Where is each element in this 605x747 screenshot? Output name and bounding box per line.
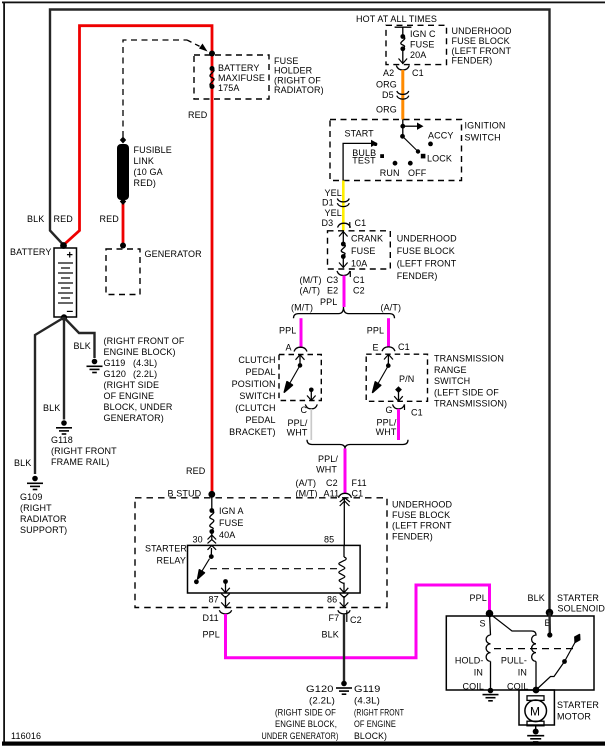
svg-text:ENGINE BLOCK,: ENGINE BLOCK, — [275, 719, 337, 729]
svg-text:MOTOR: MOTOR — [557, 711, 591, 721]
svg-text:(RIGHT SIDE OF: (RIGHT SIDE OF — [275, 707, 336, 717]
svg-text:(LEFT SIDE OF: (LEFT SIDE OF — [434, 387, 499, 397]
svg-text:HOLDER: HOLDER — [274, 66, 313, 76]
svg-text:E: E — [373, 342, 379, 352]
svg-text:M: M — [530, 705, 540, 719]
svg-text:GENERATOR): GENERATOR) — [104, 413, 164, 423]
svg-text:FENDER): FENDER) — [392, 531, 433, 541]
svg-text:(10 GA: (10 GA — [134, 167, 163, 177]
svg-text:YEL: YEL — [325, 208, 342, 218]
svg-text:RED): RED) — [134, 178, 156, 188]
svg-text:87: 87 — [209, 594, 219, 604]
svg-text:PPL/: PPL/ — [318, 454, 338, 464]
svg-text:C2: C2 — [353, 286, 365, 296]
label PPL/WHT — [316, 454, 338, 475]
svg-text:A: A — [286, 343, 292, 353]
svg-text:UNDERHOOD: UNDERHOOD — [452, 26, 512, 36]
svg-text:(4.3L): (4.3L) — [354, 696, 380, 706]
fuse holder / battery maxifuse box — [194, 51, 269, 100]
svg-text:PULL-: PULL- — [501, 656, 527, 666]
connector cup below crank fuse — [337, 271, 350, 277]
wire PPL/WHT clutch switch to merge (M/T) — [310, 409, 312, 440]
svg-text:(RIGHT: (RIGHT — [20, 503, 52, 513]
svg-text:C: C — [301, 405, 308, 415]
svg-text:BLK: BLK — [27, 214, 44, 224]
node B junction — [546, 609, 554, 617]
label IGN C FUSE 20A — [410, 29, 436, 60]
label PPL/WHT (M/T) — [287, 418, 308, 438]
svg-text:(M/T): (M/T) — [296, 489, 318, 499]
svg-text:PEDAL: PEDAL — [245, 367, 275, 377]
svg-text:(M/T): (M/T) — [300, 275, 322, 285]
wire PPL split to transmission range switch — [387, 318, 390, 347]
svg-text:D1: D1 — [322, 198, 334, 208]
wire ORG fuse to ignition switch — [401, 70, 404, 120]
wire PPL/WHT transmission range switch to merge (A/T) — [397, 409, 400, 440]
svg-text:(RIGHT OF: (RIGHT OF — [274, 75, 321, 85]
svg-text:ORG: ORG — [376, 79, 397, 89]
svg-text:UNDER GENERATOR): UNDER GENERATOR) — [262, 731, 339, 741]
inline connector D5 — [397, 91, 409, 99]
svg-text:C1: C1 — [398, 342, 410, 352]
solenoid pull-in coil — [490, 614, 537, 691]
label BULB TEST — [352, 148, 376, 166]
pin 87 exit to D11 — [219, 594, 231, 614]
svg-text:PEDAL: PEDAL — [245, 415, 275, 425]
node S junction — [486, 610, 494, 618]
svg-text:10A: 10A — [351, 259, 367, 269]
node pull-in coil / motor junction — [533, 687, 540, 694]
svg-text:FENDER): FENDER) — [452, 56, 493, 66]
svg-text:TRANSMISSION: TRANSMISSION — [434, 354, 504, 364]
svg-text:(2.2L): (2.2L) — [309, 696, 335, 706]
svg-text:C1: C1 — [411, 407, 423, 417]
svg-text:SWITCH: SWITCH — [465, 132, 501, 142]
svg-text:POSITION: POSITION — [232, 379, 276, 389]
svg-text:+: + — [67, 250, 73, 262]
svg-text:D5: D5 — [382, 90, 394, 100]
connector cap A — [294, 347, 307, 351]
svg-text:RUN: RUN — [380, 168, 400, 178]
svg-text:YEL: YEL — [325, 188, 342, 198]
svg-text:WHT: WHT — [376, 427, 397, 437]
svg-text:BLK: BLK — [43, 403, 60, 413]
svg-text:F11: F11 — [352, 478, 367, 488]
connector cup A2/C1 — [396, 66, 409, 71]
svg-text:RED: RED — [186, 466, 206, 476]
relay coil 85-86 — [339, 545, 349, 592]
svg-text:BATTERY: BATTERY — [10, 247, 52, 257]
label HOLD-IN COIL — [455, 656, 484, 692]
clutch pedal position switch S1 — [279, 355, 321, 401]
connector cup G/C1 — [393, 404, 405, 410]
svg-text:C2: C2 — [350, 615, 362, 625]
svg-text:RADIATOR: RADIATOR — [20, 514, 67, 524]
svg-text:PPL: PPL — [279, 326, 296, 336]
fuse IGN C 20A — [395, 27, 412, 64]
svg-text:LOCK: LOCK — [427, 154, 452, 164]
label (M/T) A11 / C1 — [296, 489, 364, 499]
fuse IGN A 40A — [208, 494, 217, 543]
starter relay K1 box — [188, 545, 361, 593]
svg-text:B STUD: B STUD — [168, 488, 202, 498]
svg-text:G119: G119 — [104, 358, 126, 368]
fusible link (10 GA RED) — [117, 137, 129, 206]
svg-text:D3: D3 — [322, 218, 334, 228]
svg-text:F7: F7 — [329, 613, 340, 623]
svg-text:G109: G109 — [20, 492, 43, 502]
connector cap D3/C1 — [338, 222, 351, 228]
label STARTER RELAY — [145, 544, 187, 566]
svg-text:C1: C1 — [353, 275, 365, 285]
svg-text:IN: IN — [518, 668, 527, 678]
label (A/T) E2 / C2 — [300, 286, 365, 296]
svg-text:–: – — [67, 304, 74, 318]
label IGN A FUSE 40A — [219, 506, 244, 540]
svg-text:BLOCK): BLOCK) — [354, 731, 387, 741]
label STARTER MOTOR — [557, 700, 599, 722]
svg-text:FUSE: FUSE — [351, 246, 375, 256]
label PPL/WHT (A/T) — [376, 418, 397, 438]
svg-text:BLK: BLK — [322, 630, 339, 640]
svg-text:IGN C: IGN C — [410, 29, 436, 39]
ignition switch internals — [343, 120, 433, 181]
wire RED battery positive to battery maxifuse and B STUD — [64, 26, 213, 494]
svg-text:FUSE BLOCK: FUSE BLOCK — [392, 510, 450, 520]
svg-text:(4.3L): (4.3L) — [133, 358, 157, 368]
svg-text:ENGINE BLOCK): ENGINE BLOCK) — [104, 347, 176, 357]
label G119 G120 ground text — [104, 336, 185, 423]
wire BLK battery positive to starter solenoid B (node B) — [50, 10, 550, 613]
solenoid armature dashed link — [494, 648, 573, 650]
svg-text:HOLD-: HOLD- — [455, 656, 484, 666]
relay 87 contact — [221, 579, 230, 593]
svg-text:SWITCH: SWITCH — [434, 376, 470, 386]
label STARTER SOLENOID — [557, 593, 605, 614]
underhood fuse block box (IGN C fuse) — [386, 25, 447, 64]
label CLUTCH PEDAL POSITION SWITCH (CLUTCH PEDAL BRACKET) — [229, 355, 275, 437]
svg-text:(RIGHT FRONT: (RIGHT FRONT — [51, 446, 117, 456]
svg-text:(A/T): (A/T) — [300, 286, 321, 296]
connector cap F11/C1 — [339, 493, 352, 498]
solenoid hold-in coil — [486, 614, 490, 691]
svg-text:C1: C1 — [355, 218, 367, 228]
svg-text:(A/T): (A/T) — [296, 478, 317, 488]
svg-text:FUSIBLE: FUSIBLE — [134, 145, 172, 155]
svg-text:(LEFT FRONT: (LEFT FRONT — [452, 46, 512, 56]
svg-text:(CLUTCH: (CLUTCH — [235, 403, 275, 413]
svg-text:40A: 40A — [219, 530, 235, 540]
svg-text:G119: G119 — [354, 684, 381, 694]
svg-text:IGN A: IGN A — [219, 506, 244, 516]
svg-text:(M/T): (M/T) — [291, 303, 313, 313]
svg-text:PPL: PPL — [470, 593, 487, 603]
svg-text:C2: C2 — [326, 478, 338, 488]
svg-text:FUSE: FUSE — [219, 518, 243, 528]
label G118 (RIGHT FRONT FRAME RAIL) — [51, 435, 117, 467]
svg-text:TRANSMISSION): TRANSMISSION) — [434, 399, 507, 409]
svg-text:WHT: WHT — [287, 428, 308, 438]
svg-text:GENERATOR: GENERATOR — [145, 249, 203, 259]
svg-text:STARTER: STARTER — [145, 544, 187, 554]
svg-text:CLUTCH: CLUTCH — [238, 355, 275, 365]
label PULL-IN COIL — [501, 656, 529, 692]
svg-text:RED: RED — [188, 110, 208, 120]
wire BLK battery negative branches — [35, 318, 95, 475]
svg-text:OF ENGINE: OF ENGINE — [104, 391, 155, 401]
svg-text:SOLENOID: SOLENOID — [558, 603, 605, 613]
svg-text:G: G — [386, 405, 393, 415]
svg-text:A2: A2 — [383, 68, 394, 78]
svg-text:SWITCH: SWITCH — [239, 391, 275, 401]
relay pin 30 entry notch — [208, 546, 217, 550]
svg-text:175A: 175A — [218, 83, 240, 93]
svg-text:PPL: PPL — [320, 297, 337, 307]
svg-text:BLK: BLK — [74, 341, 91, 351]
svg-text:30: 30 — [193, 535, 203, 545]
svg-text:D11: D11 — [203, 613, 219, 623]
split brace — [294, 307, 395, 318]
underhood fuse block box (crank fuse) — [328, 231, 391, 269]
svg-text:E2: E2 — [327, 286, 338, 296]
svg-text:FUSE BLOCK: FUSE BLOCK — [452, 36, 510, 46]
pin 86 exit to F7 — [338, 594, 350, 622]
relay switch blade 30-87 — [194, 548, 214, 584]
wire PPL D11 to starter solenoid S — [226, 585, 490, 658]
svg-text:BATTERY: BATTERY — [218, 63, 260, 73]
svg-text:BRACKET): BRACKET) — [229, 427, 275, 437]
label CRANK FUSE 10A — [351, 234, 383, 269]
solenoid B contact stub — [547, 613, 552, 638]
merge brace — [307, 440, 408, 449]
svg-text:PPL: PPL — [203, 630, 220, 640]
ignition switch box — [330, 120, 462, 181]
ground hold-in coil — [483, 688, 499, 701]
svg-text:LINK: LINK — [134, 156, 155, 166]
svg-text:FRAME RAIL): FRAME RAIL) — [51, 457, 109, 467]
wire PPL crank fuse to split — [343, 276, 346, 308]
label (M/T) C3 / C1 — [300, 275, 365, 285]
label FUSIBLE LINK (10 GA RED) — [134, 145, 172, 188]
underhood fuse block box (starter relay) — [135, 498, 387, 608]
svg-text:TEST: TEST — [352, 156, 376, 166]
wire BLK F7 to ground G120/G119 — [343, 614, 345, 683]
svg-text:C1: C1 — [412, 68, 424, 78]
transmission range switch S2 — [366, 354, 427, 401]
svg-text:P/N: P/N — [399, 374, 414, 384]
starter solenoid box — [446, 616, 594, 690]
node B STUD junction — [208, 491, 215, 498]
svg-text:COIL: COIL — [463, 682, 485, 692]
svg-text:PPL: PPL — [367, 326, 384, 336]
svg-text:RELAY: RELAY — [157, 556, 186, 566]
fuse BATTERY MAXIFUSE 175A — [210, 66, 215, 89]
svg-text:20A: 20A — [410, 50, 426, 60]
ground G119/G120 (battery side) — [87, 359, 103, 373]
svg-text:BLOCK, UNDER: BLOCK, UNDER — [104, 402, 173, 412]
svg-text:ORG: ORG — [376, 105, 397, 115]
svg-text:IGNITION: IGNITION — [465, 121, 506, 131]
label UNDERHOOD FUSE BLOCK (LEFT FRONT FENDER) crank — [397, 234, 457, 282]
svg-text:(RIGHT SIDE: (RIGHT SIDE — [104, 380, 160, 390]
svg-text:C1: C1 — [352, 489, 364, 499]
svg-text:(RIGHT FRONT: (RIGHT FRONT — [354, 707, 404, 717]
svg-text:RANGE: RANGE — [434, 365, 467, 375]
wire PPL split to clutch pedal position switch — [300, 318, 303, 348]
svg-text:WHT: WHT — [316, 465, 337, 475]
generator — [106, 243, 140, 295]
svg-text:116016: 116016 — [11, 731, 41, 741]
svg-text:S: S — [480, 619, 486, 629]
svg-text:(2.2L): (2.2L) — [133, 369, 157, 379]
label G119 (4.3L) (RIGHT FRONT OF ENGINE BLOCK) — [354, 684, 404, 741]
label UNDERHOOD FUSE BLOCK (LEFT FRONT FENDER) relay — [392, 500, 452, 542]
svg-text:(LEFT FRONT: (LEFT FRONT — [397, 259, 457, 269]
label (A/T) C2 / F11 — [296, 478, 367, 488]
svg-text:BLK: BLK — [14, 458, 31, 468]
connector cap E/C1 — [382, 347, 395, 351]
svg-text:A11: A11 — [324, 489, 340, 499]
svg-text:IN: IN — [474, 668, 483, 678]
connector cup C — [305, 404, 317, 409]
svg-text:86: 86 — [327, 594, 337, 604]
wire F11 to relay pin 85 — [340, 498, 350, 546]
svg-text:RED: RED — [54, 214, 74, 224]
svg-text:FUSE: FUSE — [410, 40, 434, 50]
svg-text:G118: G118 — [51, 435, 73, 445]
svg-text:UNDERHOOD: UNDERHOOD — [397, 234, 457, 244]
svg-text:(RIGHT FRONT OF: (RIGHT FRONT OF — [104, 336, 185, 346]
svg-text:BLK: BLK — [528, 593, 545, 603]
ground G109 — [27, 476, 43, 490]
svg-text:OF ENGINE: OF ENGINE — [354, 719, 396, 729]
svg-text:RED: RED — [100, 214, 120, 224]
svg-text:CRANK: CRANK — [351, 234, 383, 244]
svg-text:ACCY: ACCY — [428, 131, 454, 141]
svg-text:G120: G120 — [104, 369, 127, 379]
svg-text:FUSE BLOCK: FUSE BLOCK — [397, 246, 455, 256]
svg-text:(A/T): (A/T) — [381, 303, 402, 313]
ground G118 — [56, 420, 72, 434]
svg-text:(LEFT FRONT: (LEFT FRONT — [392, 521, 452, 531]
svg-text:STARTER: STARTER — [557, 593, 599, 603]
label UNDERHOOD FUSE BLOCK (LEFT FRONT FENDER) top right — [452, 26, 512, 66]
svg-text:STARTER: STARTER — [557, 700, 599, 710]
svg-text:FENDER): FENDER) — [397, 271, 438, 281]
svg-text:START: START — [345, 129, 375, 139]
wire PPL/WHT merge to underhood fuse block F11 — [344, 449, 347, 494]
label IGNITION SWITCH — [465, 121, 506, 143]
svg-text:UNDERHOOD: UNDERHOOD — [392, 500, 452, 510]
svg-text:85: 85 — [324, 535, 334, 545]
svg-text:G120: G120 — [306, 684, 334, 694]
label TRANSMISSION RANGE SWITCH (LEFT SIDE OF TRANSMISSION) — [434, 354, 507, 409]
label FUSE HOLDER (RIGHT OF RADIATOR) — [274, 56, 324, 95]
ground G120/G119 — [336, 681, 352, 695]
svg-text:RADIATOR): RADIATOR) — [274, 85, 324, 95]
label BATTERY MAXIFUSE 175A — [218, 63, 265, 93]
svg-text:PPL/: PPL/ — [377, 418, 397, 428]
wire RED fusible link to generator — [122, 201, 125, 245]
svg-text:PPL/: PPL/ — [288, 418, 308, 428]
label G109 (RIGHT RADIATOR SUPPORT) — [20, 492, 67, 535]
svg-text:HOT AT ALL TIMES: HOT AT ALL TIMES — [356, 14, 437, 24]
wire dashed link from fusible link to maxifuse — [123, 40, 208, 137]
svg-text:SUPPORT): SUPPORT) — [20, 525, 67, 535]
ground starter motor — [527, 726, 544, 742]
inline connector D1 — [337, 199, 349, 207]
svg-text:FUSE: FUSE — [274, 56, 298, 66]
solenoid contact switch — [536, 635, 580, 691]
battery — [54, 242, 77, 321]
relay armature dashed link — [210, 568, 342, 570]
svg-text:MAXIFUSE: MAXIFUSE — [218, 73, 265, 83]
starter motor — [519, 690, 554, 726]
svg-text:OFF: OFF — [408, 168, 427, 178]
svg-text:C3: C3 — [327, 275, 339, 285]
wire YEL ignition switch to crank fuse — [342, 181, 345, 231]
fuse CRANK 10A — [339, 232, 348, 268]
label G120 (2.2L) (RIGHT SIDE OF ENGINE BLOCK, UNDER GENERATOR) — [262, 684, 339, 741]
